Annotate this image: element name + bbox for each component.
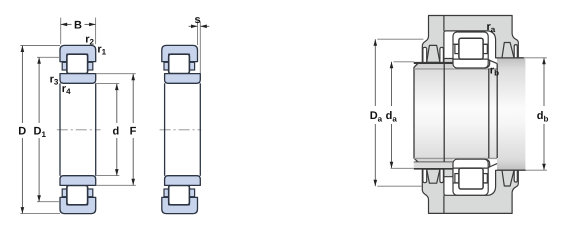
shoulder ridge top-left (volcano) — [427, 45, 440, 62]
svg-text:r4: r4 — [62, 83, 71, 96]
fillet line rb top — [488, 60, 497, 64]
housing bottom half — [422, 169, 518, 213]
fillet line rb bottom — [488, 164, 497, 168]
svg-text:Da: Da — [370, 110, 383, 124]
housing split line bottom — [443, 195, 445, 213]
shaft shoulder bottom edge — [414, 161, 453, 163]
shaft left end face — [414, 63, 418, 162]
dimension da extension bottom — [391, 167, 414, 169]
cage pocket left fig2 top — [164, 62, 169, 70]
flange bottom right line — [483, 43, 488, 45]
relief slot top-left A — [423, 47, 427, 62]
outer ring fig2 bottom — [162, 197, 198, 213]
cage right fig3 bottom — [483, 174, 487, 183]
dimension d extension top — [96, 83, 120, 85]
flange bottom left line — [453, 43, 459, 45]
abutment line top-left — [414, 62, 453, 64]
shaft shoulder top edge — [414, 62, 453, 64]
cage left fig3 bottom — [455, 174, 459, 183]
inner ring protrusion fig3 top — [486, 60, 490, 68]
roller fig2 top — [169, 54, 190, 73]
svg-text:B: B — [74, 19, 82, 31]
shoulder ridge bottom-right (volcano) — [502, 170, 514, 186]
dimension F line — [132, 74, 134, 123]
shoulder ridge bottom-left (volcano) — [427, 169, 440, 183]
relief slot bottom-left A — [423, 169, 427, 183]
dimension d line — [116, 84, 118, 123]
svg-text:r3: r3 — [50, 73, 59, 86]
dimension db extension top — [524, 57, 547, 59]
centerline figure 2 — [160, 129, 202, 131]
svg-text:r2: r2 — [85, 34, 94, 47]
dimension D extension bottom — [20, 213, 60, 215]
cage pocket right fig2 bottom — [189, 189, 194, 197]
inner ring fig2 top (shifted right) — [165, 74, 201, 84]
roller fig3 bottom — [459, 168, 483, 189]
dimension db line — [543, 58, 545, 106]
dimension da extension top — [394, 61, 414, 63]
dimension D extension top — [20, 45, 60, 47]
bearing bottom assembly fig1 (mirror) — [60, 176, 96, 214]
flange line left m — [453, 182, 459, 184]
bearing bottom fig3 — [453, 159, 497, 195]
abutment line bottom-left — [414, 168, 453, 170]
dimension D1 line — [38, 57, 40, 123]
dimension da line — [391, 62, 393, 106]
cage right fig3 top — [483, 44, 487, 53]
shoulder tab top — [444, 59, 453, 64]
inner ring left face fig2 — [164, 83, 166, 176]
dimension db extension bottom — [526, 169, 547, 171]
inner ring top line fig3 — [453, 58, 488, 60]
svg-text:D: D — [18, 125, 26, 137]
seat shading line top — [414, 68, 497, 70]
s extension line outer ring face — [197, 21, 199, 45]
s dimension arrows — [189, 25, 198, 27]
shaft body — [414, 58, 525, 170]
bearing top fig3 — [453, 32, 497, 68]
svg-text:s: s — [195, 14, 201, 26]
svg-text:da: da — [386, 110, 398, 124]
svg-text:D1: D1 — [34, 125, 47, 139]
dimension F extension bottom — [96, 184, 136, 186]
relief slot top-right — [514, 45, 517, 58]
inner ring fig2 bottom — [165, 176, 201, 186]
housing split line top — [443, 16, 445, 31]
relief slot bottom-right — [514, 170, 517, 182]
svg-text:d: d — [113, 125, 120, 137]
cage left fig3 top — [455, 44, 459, 53]
bearing outline top fig3 — [453, 32, 488, 68]
inner ring right face fig1 — [95, 83, 97, 176]
step silhouette line left — [443, 64, 445, 162]
dimension F extension top — [96, 73, 136, 75]
dimension Da line — [374, 39, 376, 106]
recess top edge — [497, 57, 524, 59]
svg-text:db: db — [537, 110, 549, 124]
inner ring right face fig2 — [199, 83, 201, 176]
seat shading line bottom — [414, 157, 497, 159]
inner ring line fig3 m — [453, 167, 488, 169]
svg-text:r1: r1 — [97, 44, 106, 57]
shoulder ridge top-right (volcano) — [502, 43, 514, 58]
flange line right m — [483, 182, 488, 184]
bearing outline bottom fig3 — [453, 159, 488, 195]
shoulder tab bottom — [444, 168, 453, 176]
inner ring left face fig1 — [59, 83, 61, 176]
shoulder band bottom — [414, 162, 453, 169]
dimension d extension bottom — [96, 175, 120, 177]
dimension Da extension bottom — [377, 185, 422, 187]
dimension D1 extension bottom — [37, 201, 60, 203]
dimension B line with arrows — [61, 23, 72, 25]
centerline figure 1 — [57, 129, 101, 131]
dimension Da extension top — [377, 38, 423, 40]
recess bottom edge — [497, 169, 526, 171]
relief slot bottom-left B — [440, 169, 444, 183]
step silhouette line right — [496, 64, 498, 158]
dimension D1 extension top — [37, 56, 60, 58]
dimension B extension lines — [60, 18, 62, 45]
s extension line inner ring face — [199, 21, 201, 73]
inner ring protrusion fig3 bottom — [486, 159, 490, 167]
bearing top assembly fig1 — [60, 45, 96, 83]
cage pocket right fig2 top — [189, 62, 194, 70]
step silhouette line mid — [488, 69, 490, 159]
cage pocket left fig2 bottom — [164, 189, 169, 197]
roller fig3 top — [459, 38, 483, 59]
svg-text:F: F — [130, 125, 137, 137]
outer ring fig2 top — [162, 45, 198, 61]
relief slot top-left B — [440, 47, 444, 62]
dimension D line — [21, 46, 23, 124]
roller fig2 bottom — [169, 185, 190, 204]
housing top half — [422, 16, 518, 63]
